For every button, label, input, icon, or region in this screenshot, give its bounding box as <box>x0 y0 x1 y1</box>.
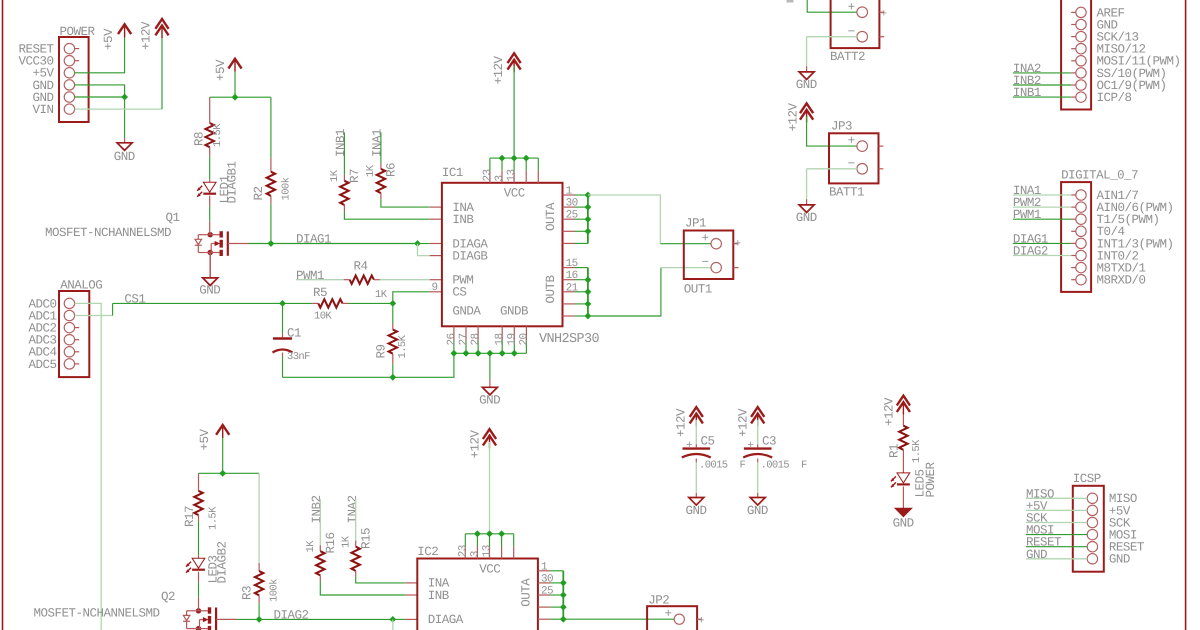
wire R17 to LED3 <box>198 521 200 556</box>
resistor R5 10K <box>312 302 318 304</box>
capacitor C5 .0015 F <box>683 447 711 449</box>
junction OUTB bus <box>585 313 592 320</box>
svg-text:18: 18 <box>494 333 506 345</box>
wire IC2 VCC bus <box>465 533 513 535</box>
wire R15 to IC2 INA pin <box>356 577 406 583</box>
svg-text:+12V: +12V <box>675 408 689 437</box>
svg-text:R1: R1 <box>888 444 902 458</box>
resistor R6 1K <box>380 163 382 169</box>
connector JP3 pin - <box>857 164 868 175</box>
junction OUTB bus <box>585 288 592 295</box>
junction IC2 VCC bus 1 <box>474 530 481 537</box>
junction OUTB bus <box>585 301 592 308</box>
svg-text:+12V: +12V <box>737 408 751 437</box>
svg-text:DIAG1: DIAG1 <box>296 233 331 247</box>
junction OUTA bus <box>585 228 592 235</box>
IC1 OUTB pin stub row 3 <box>563 291 576 293</box>
svg-text:28: 28 <box>470 333 482 345</box>
svg-text:INA2: INA2 <box>346 495 360 523</box>
BATT2 outside stubs <box>879 11 884 13</box>
wire IC1 VCC pin stub x=526 <box>525 158 527 171</box>
connector ICSP pin SCK <box>1087 517 1097 527</box>
svg-text:INB: INB <box>428 589 450 603</box>
svg-text:GND: GND <box>1109 553 1130 567</box>
IC1 OUTB pin stub row 2 <box>563 279 576 281</box>
wire IC1 VCC pin stub x=490 <box>489 158 491 171</box>
capacitor C1 33nF <box>282 303 284 333</box>
connector DIGITAL_0_7 pin INT1/3(PWM) <box>1076 238 1086 248</box>
wire R5 to CS junction <box>349 302 393 304</box>
connector POWER pin VIN <box>64 104 74 114</box>
connector BATT2 box <box>831 0 880 48</box>
wire R2 bottom to DIAG1 net <box>270 204 272 244</box>
junction VCC bus 3 <box>523 155 530 162</box>
junction ground rail at R9 <box>389 374 396 381</box>
wire DIAG2 jog toward DIAGB pin (clipped) <box>392 619 394 630</box>
resistor R7 1K <box>343 175 345 181</box>
connector DIGITAL_8_13 pin GND <box>1076 19 1086 29</box>
junction OUTB bus <box>585 276 592 283</box>
LED LED5 POWER <box>897 473 910 483</box>
connector POWER pin GND <box>64 80 74 90</box>
wire OUTB bus <box>587 268 589 316</box>
resistor R17 1.5K <box>198 473 200 491</box>
wire +5V rail to R8 and R2 <box>234 72 236 97</box>
connector ICSP pin +5V <box>1087 505 1097 515</box>
svg-text:3: 3 <box>494 175 506 181</box>
wire +12V to JP3 + <box>807 116 857 146</box>
wire JP3 - to ground <box>807 168 857 170</box>
wire LED3 cathode to Q2 drain <box>198 572 200 583</box>
connector DIGITAL_0_7 box <box>1061 182 1091 292</box>
svg-text:VIN: VIN <box>32 103 53 117</box>
wire IC1 VCC bus <box>490 157 538 159</box>
connector BATT2 pin - <box>857 31 868 42</box>
connector ICSP pin MOSI <box>1087 529 1097 539</box>
power symbol +12V (C5) <box>690 407 703 417</box>
wire R6 to IC1 INA pin <box>381 199 430 207</box>
svg-text:+: + <box>747 440 753 452</box>
ground GND (JP3) <box>799 205 814 213</box>
IC2 OUTA pin stub row 4 <box>538 606 551 608</box>
wire OUTA bus <box>587 195 589 243</box>
svg-text:JP3: JP3 <box>831 120 852 134</box>
svg-text:Q2: Q2 <box>161 590 175 604</box>
svg-text:VNH2SP30: VNH2SP30 <box>539 332 600 347</box>
power symbol +12V (LED5) <box>897 396 910 406</box>
svg-text:GND: GND <box>747 504 768 518</box>
svg-text:25: 25 <box>541 586 553 598</box>
connector DIGITAL_0_7 pin AIN1/7 <box>1076 190 1086 200</box>
wire PWM1 net to R4 <box>296 279 344 281</box>
wire DIAG1 net from Q1 gate to IC1 <box>228 243 249 245</box>
svg-text:IC1: IC1 <box>442 166 463 180</box>
IC2 OUTA pin stub row 2 <box>538 582 551 584</box>
resistor R4 1K <box>344 279 350 281</box>
junction IC1 ground rail <box>511 350 518 357</box>
wire CS2 net from ADC0 down to IC2 (off-sheet) <box>75 303 102 630</box>
svg-text:+: + <box>881 9 887 21</box>
svg-text:100k: 100k <box>269 579 281 602</box>
wire +12V to C5 <box>695 420 697 444</box>
svg-text:DIAG2: DIAG2 <box>274 609 309 623</box>
wire CS1 jog up to IC1 CS pin <box>393 292 430 304</box>
connector DIGITAL_8_13 pin SS/10(PWM) <box>1076 68 1086 78</box>
svg-text:+12V: +12V <box>787 102 801 131</box>
svg-text:1.5K: 1.5K <box>208 506 220 530</box>
svg-text:CS1: CS1 <box>124 293 145 307</box>
wire +12V to IC1 VCC bus <box>513 66 515 158</box>
svg-text:+: + <box>698 616 704 628</box>
svg-text:23: 23 <box>482 169 494 181</box>
svg-text:1K: 1K <box>341 535 353 548</box>
connector JP2 box (clipped at bottom) <box>647 606 697 630</box>
connector DIGITAL_8_13 pin MOSI/11(PWM) <box>1076 56 1086 66</box>
svg-text:33nF: 33nF <box>287 351 310 363</box>
wire C3 to ground <box>757 459 759 463</box>
JP3 outside stubs <box>879 145 884 147</box>
wire IC1 VCC pin stub x=514 <box>513 158 515 171</box>
connector ANALOG pin ADC0 <box>64 298 74 308</box>
connector ANALOG pin ADC2 <box>64 322 74 332</box>
svg-text:INB1: INB1 <box>1013 86 1041 100</box>
wire +12V to BATT2 + <box>807 0 857 12</box>
wire Q1 source to ground <box>209 253 211 278</box>
svg-text:23: 23 <box>457 545 469 557</box>
IC1 OUTA pin stub row 4 <box>563 230 576 232</box>
svg-text:ADC5: ADC5 <box>28 358 56 372</box>
junction +5V rail at arrow drop <box>232 94 239 101</box>
wire INA1 stub to R6 <box>380 132 382 163</box>
svg-text:10K: 10K <box>314 311 332 323</box>
resistor R8 1.5K <box>209 97 211 123</box>
connector ANALOG pin ADC4 <box>64 347 74 357</box>
wire DIAG1 into DIAGA pin <box>418 243 430 245</box>
driver IC2 VNH2SP30 box (clipped at bottom) <box>417 559 538 630</box>
connector ICSP box <box>1073 486 1104 572</box>
svg-text:+5V: +5V <box>214 59 228 81</box>
IC2 OUTA pin stub row 3 <box>538 594 551 596</box>
connector ANALOG box <box>59 291 89 377</box>
connector DIGITAL_8_13 box (clipped at top) <box>1061 0 1091 110</box>
wire IC1 ground pin rail <box>454 352 527 354</box>
svg-text:+: + <box>848 134 855 148</box>
resistor R2 100k <box>270 158 272 172</box>
power label remnant at top edge <box>787 0 794 3</box>
svg-text:OUTA: OUTA <box>544 202 558 231</box>
connector DIGITAL_0_7 pin INT0/2 <box>1076 250 1086 260</box>
svg-text:F: F <box>801 460 807 472</box>
svg-text:GND: GND <box>796 211 817 225</box>
svg-text:OUT1: OUT1 <box>684 282 712 296</box>
junction IC2 OUTA bus <box>560 592 567 599</box>
svg-text:1K: 1K <box>305 540 317 553</box>
svg-text:1.5K: 1.5K <box>911 439 923 463</box>
IC1 OUTB pin stub row 1 <box>563 267 576 269</box>
wire CS1 net from ADC1 <box>75 315 113 317</box>
svg-text:DIAGB2: DIAGB2 <box>216 541 230 583</box>
junction CS1 at C1 <box>279 300 286 307</box>
wire +5V net from POWER pin to +5V symbol <box>75 37 125 73</box>
svg-text:+: + <box>848 1 855 15</box>
connector ICSP pin RESET <box>1087 542 1097 552</box>
wire IC1 VCC pin stub x=502 <box>501 158 503 171</box>
svg-text:+12V: +12V <box>469 429 483 458</box>
connector POWER pin GND <box>64 92 74 102</box>
svg-text:GND: GND <box>1026 548 1047 562</box>
wire GND net from POWER pins <box>75 85 125 97</box>
junction VCC bus 1 <box>499 155 506 162</box>
svg-text:3: 3 <box>469 551 481 557</box>
connector DIGITAL_0_7 pin AIN0/6(PWM) <box>1076 202 1086 212</box>
wire R7 to IC1 INB pin <box>344 211 429 219</box>
wire INB2 stub to R16 <box>319 499 321 545</box>
svg-text:1.5K: 1.5K <box>397 334 409 358</box>
svg-text:26: 26 <box>446 333 458 345</box>
wire IC2 OUTA bus <box>562 571 564 619</box>
schematic frame left border <box>2 0 4 630</box>
IC2 OUTA pin stub row 5 <box>538 618 551 620</box>
junction DIAG2 at DIAGB jog <box>389 616 396 623</box>
svg-text:F: F <box>740 460 746 472</box>
svg-text:GND: GND <box>479 394 500 408</box>
IC1 OUTA pin stub row 5 <box>563 242 576 244</box>
svg-text:OUTB: OUTB <box>544 274 558 303</box>
ground GND (POWER block) <box>117 143 132 151</box>
svg-text:VCC: VCC <box>479 562 500 576</box>
svg-text:BATT2: BATT2 <box>830 50 865 64</box>
svg-text:Q1: Q1 <box>166 211 180 225</box>
svg-text:27: 27 <box>458 333 470 345</box>
svg-text:+: + <box>665 607 672 621</box>
svg-text:C5: C5 <box>701 435 715 449</box>
power symbol +5V (Q2 branch) <box>222 427 224 438</box>
ground GND (C3) <box>750 498 765 506</box>
connector DIGITAL_8_13 pin OC1/9(PWM) <box>1076 80 1086 90</box>
IC1 GND pin stub x=502 <box>501 326 503 340</box>
svg-text:GND: GND <box>893 517 914 531</box>
junction IC2 VCC bus 2 <box>486 530 493 537</box>
connector JP1 pin - <box>711 262 721 272</box>
wire R9 to ground rail <box>392 364 394 378</box>
junction IC2 OUTA bus <box>560 616 567 623</box>
svg-text:R17: R17 <box>183 506 197 527</box>
svg-text:1.5K: 1.5K <box>212 123 224 147</box>
junction IC1 ground rail <box>475 350 482 357</box>
connector JP3 box <box>829 133 879 183</box>
IC1 GND pin stub x=454 <box>453 326 455 340</box>
svg-text:ICP/8: ICP/8 <box>1097 91 1132 105</box>
svg-text:GND: GND <box>199 284 220 298</box>
power symbol +12V (JP3) <box>800 103 813 113</box>
connector DIGITAL_8_13 pin MISO/12 <box>1076 44 1086 54</box>
wire IC2 VCC pin stub x=477 <box>476 534 478 547</box>
wire INA2 stub to R15 <box>355 499 357 541</box>
svg-text:DIAGA: DIAGA <box>428 613 464 627</box>
svg-text:PWM1: PWM1 <box>1013 208 1041 222</box>
svg-text:C1: C1 <box>287 327 301 341</box>
JP1 outside pin stubs <box>733 243 738 245</box>
svg-text:R3: R3 <box>241 586 255 600</box>
junction on GND net at POWER <box>121 94 128 101</box>
ground GND (LED5) <box>896 509 911 517</box>
schematic frame right border <box>1185 0 1187 630</box>
svg-text:R6: R6 <box>385 163 399 177</box>
connector DIGITAL_0_7 pin M8TXD/1 <box>1076 262 1086 272</box>
wire R8 to LED1 <box>209 157 211 180</box>
junction CS1 at R9 <box>389 300 396 307</box>
wire LED5 to ground <box>902 486 904 508</box>
svg-text:M8RXD/0: M8RXD/0 <box>1097 274 1146 288</box>
svg-text:+: + <box>702 232 709 246</box>
junction IC2 VCC bus 3 <box>498 530 505 537</box>
svg-text:BATT1: BATT1 <box>829 185 864 199</box>
svg-text:+12V: +12V <box>492 55 506 84</box>
svg-text:R7: R7 <box>348 169 362 183</box>
power symbol +5V (Q1 branch) <box>234 61 236 72</box>
svg-text:.0015: .0015 <box>699 460 728 472</box>
junction DIAG1 at DIAGB jog <box>414 240 421 247</box>
svg-text:20: 20 <box>518 333 530 345</box>
wire OUT1+ from OUTA bus to JP1 <box>588 195 661 244</box>
op-amp/driver IC1 VNH2SP30 box <box>442 183 563 326</box>
wire +12V to IC2 VCC bus <box>489 442 491 534</box>
svg-text:GND: GND <box>114 150 135 164</box>
svg-text:PWM1: PWM1 <box>296 269 324 283</box>
svg-text:DIGITAL_0_7: DIGITAL_0_7 <box>1061 169 1138 183</box>
svg-text:9: 9 <box>432 282 438 294</box>
wire IC1 VCC pin stub x=538 <box>537 158 539 171</box>
wire OUT2+ from OUTA bus to JP2 <box>563 618 674 620</box>
svg-text:30: 30 <box>541 573 553 585</box>
power symbol +5V (POWER block) <box>124 26 126 37</box>
svg-text:INB1: INB1 <box>334 129 348 157</box>
wire C5 to ground <box>695 459 697 463</box>
junction IC1 ground rail <box>487 350 494 357</box>
svg-text:R5: R5 <box>313 286 327 300</box>
wire +12V to C3 <box>757 420 759 444</box>
wire IC2 VCC pin stub x=465 <box>464 534 466 547</box>
IC1 GND pin stub x=526 <box>525 326 527 340</box>
svg-text:POWER: POWER <box>924 461 938 497</box>
resistor R16 1K <box>319 545 321 551</box>
ground GND (IC1) <box>482 387 497 395</box>
svg-text:OUTA: OUTA <box>519 578 533 607</box>
connector BATT2 pin + <box>857 7 868 18</box>
IC1 GND pin stub x=478 <box>477 326 479 340</box>
svg-text:13: 13 <box>506 169 518 181</box>
connector DIGITAL_0_7 pin T1/5(PWM) <box>1076 214 1086 224</box>
wire +5V rail to R17 and R3 <box>222 438 224 474</box>
svg-text:IC2: IC2 <box>417 545 438 559</box>
LED LED1 DIAGB1 <box>203 182 216 192</box>
svg-text:GNDA: GNDA <box>452 305 481 319</box>
svg-text:15: 15 <box>566 258 578 270</box>
connector ANALOG pin ADC1 <box>64 310 74 320</box>
power symbol +12V (IC1) <box>508 53 521 63</box>
connector DIGITAL_0_7 pin T0/4 <box>1076 226 1086 236</box>
IC1 OUTA pin stub row 3 <box>563 218 576 220</box>
svg-text:R16: R16 <box>324 532 338 553</box>
wire DIAG2 net from Q2 gate to IC2 <box>216 618 237 620</box>
svg-text:1K: 1K <box>365 164 377 177</box>
ground GND (C5) <box>689 498 704 506</box>
svg-text:DIAGB1: DIAGB1 <box>226 161 240 203</box>
junction DIAG2 at R3 <box>256 616 263 623</box>
IC1 OUTB pin stub row 4 <box>563 303 576 305</box>
svg-text:R9: R9 <box>375 344 389 358</box>
connector ICSP pin MISO <box>1087 493 1097 503</box>
junction +5V rail (bottom) <box>219 470 226 477</box>
resistor R3 100k <box>258 563 260 571</box>
svg-text:1K: 1K <box>375 289 388 301</box>
resistor R15 1K <box>355 541 357 547</box>
IC1 OUTA pin stub row 2 <box>563 206 576 208</box>
connector JP3 pin + <box>857 141 868 152</box>
svg-text:30: 30 <box>566 198 578 210</box>
IC1 GND pin stub x=466 <box>465 326 467 340</box>
wire DIAG2 into IC2 DIAGA pin <box>393 618 405 620</box>
wire LED1 cathode to Q1 drain <box>209 196 211 207</box>
IC1 OUTB pin stub row 5 <box>563 315 576 317</box>
junction OUTA bus <box>585 192 592 199</box>
wire IC2 VCC pin stub x=514 <box>513 534 515 547</box>
wire CS1 net from ANALOG to R5 <box>113 302 313 304</box>
wire OUT1- from OUTB bus to JP1 <box>588 268 661 316</box>
IC1 GND pin stub x=514 <box>513 326 515 340</box>
connector DIGITAL_0_7 pin M8RXD/0 <box>1076 275 1086 285</box>
connector DIGITAL_8_13 pin ICP/8 <box>1076 92 1086 102</box>
svg-text:R2: R2 <box>252 186 266 200</box>
connector DIGITAL_8_13 pin SCK/13 <box>1076 31 1086 41</box>
svg-text:1: 1 <box>566 186 573 198</box>
svg-text:+12V: +12V <box>140 21 154 50</box>
connector ANALOG pin ADC5 <box>64 359 74 369</box>
ground GND (Q1) <box>203 278 218 286</box>
JP2 outside stub <box>697 618 702 620</box>
svg-text:13: 13 <box>482 545 494 557</box>
svg-text:21: 21 <box>566 282 579 294</box>
power symbol +12V (POWER block) <box>155 19 168 29</box>
svg-text:+: + <box>686 440 692 452</box>
IC2 OUTA pin stub row 1 <box>538 570 551 572</box>
junction IC1 ground rail <box>451 350 458 357</box>
wire R3 top drop <box>258 473 260 563</box>
wire R4 to IC1 PWM pin <box>380 279 430 281</box>
LED LED3 DIAGB2 <box>192 558 205 568</box>
wire C1 to ground rail <box>282 353 284 357</box>
connector ANALOG pin ADC3 <box>64 335 74 345</box>
svg-text:MOSFET-NCHANNELSMD: MOSFET-NCHANNELSMD <box>34 607 160 621</box>
connector JP1 pin + <box>711 239 721 249</box>
connector POWER pin VCC30 <box>64 56 74 66</box>
svg-text:ICSP: ICSP <box>1073 472 1101 486</box>
wire ground rail under IC1 <box>283 353 454 377</box>
wire IC2 VCC pin stub x=490 <box>489 534 491 547</box>
wire R3 bottom to DIAG2 net <box>258 603 260 619</box>
svg-text:JP1: JP1 <box>685 217 706 231</box>
svg-text:INA1: INA1 <box>371 129 385 157</box>
connector JP1 box <box>684 231 734 280</box>
junction IC1 ground rail <box>499 350 506 357</box>
junction OUTA bus <box>585 204 592 211</box>
junction IC2 OUTA bus <box>560 604 567 611</box>
svg-text:−: − <box>702 256 709 270</box>
connector POWER pin RESET <box>64 43 74 53</box>
wire IC2 VCC pin stub x=502 <box>501 534 503 547</box>
svg-text:25: 25 <box>566 210 578 222</box>
svg-text:GNDB: GNDB <box>500 305 529 319</box>
